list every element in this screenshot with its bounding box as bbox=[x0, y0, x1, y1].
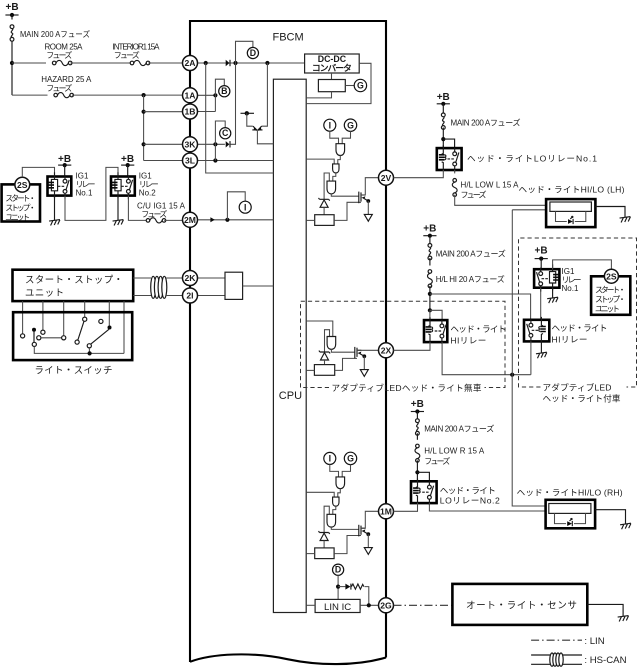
svg-text:I: I bbox=[329, 120, 331, 130]
diode lin bbox=[345, 584, 350, 590]
svg-text:フューズ: フューズ bbox=[141, 209, 167, 219]
node HI common bbox=[510, 373, 514, 377]
coil IG1 No.2 bbox=[112, 172, 121, 198]
open triangle A bbox=[364, 214, 372, 221]
+B node adp bbox=[535, 257, 548, 261]
open triangle B bbox=[360, 370, 368, 377]
wire HI common up to LH lamp bbox=[511, 210, 513, 375]
wire 2A to DC-DC bbox=[198, 62, 305, 64]
wire coil to 2V bbox=[394, 170, 444, 178]
svg-text:ライト・スイッチ: ライト・スイッチ bbox=[35, 365, 113, 376]
svg-text:ユニット: ユニット bbox=[5, 213, 30, 222]
wire transceiver to CPU bbox=[243, 285, 274, 287]
arm dot 5 bbox=[108, 326, 112, 330]
bubble C bbox=[220, 128, 231, 139]
wire zener to resistor C bbox=[323, 541, 325, 548]
contact pair mid bbox=[37, 336, 41, 340]
bubble I bbox=[239, 201, 251, 213]
gate1 C bbox=[336, 477, 345, 489]
hook to I bubble bbox=[227, 192, 245, 220]
diode D1 on 2A line bbox=[226, 60, 230, 66]
switch IG1 adp (mirrored) bbox=[537, 268, 548, 292]
svg-text:1M: 1M bbox=[380, 507, 392, 517]
wire switch line 1 bbox=[22, 301, 24, 334]
node 3K tap bbox=[142, 142, 146, 146]
wire HI common down to RH lamp bbox=[512, 375, 545, 506]
arm diagonal 4 bbox=[78, 321, 84, 340]
svg-text:FBCM: FBCM bbox=[273, 32, 304, 44]
wire coil to 2X bbox=[394, 342, 431, 350]
fuse HAZARD 25A bbox=[54, 93, 74, 98]
svg-text:アダプティブLEDヘッド・ライト無車: アダプティブLEDヘッド・ライト無車 bbox=[332, 382, 482, 393]
wire 2K in bbox=[198, 277, 226, 279]
wire to 2A bbox=[148, 62, 182, 64]
svg-text:MAIN 200 Aフューズ: MAIN 200 Aフューズ bbox=[20, 29, 90, 39]
node junction at +B rail bbox=[10, 61, 14, 65]
legend LIN line bbox=[531, 639, 582, 641]
start-stop unit box (adp) bbox=[591, 276, 630, 315]
LIN IC box bbox=[315, 599, 360, 612]
svg-text:LOリレーNo.2: LOリレーNo.2 bbox=[440, 496, 500, 506]
node hi branch2 bbox=[428, 308, 432, 312]
ground LH bbox=[620, 217, 632, 223]
wire link to junction bbox=[11, 42, 13, 96]
svg-text:フューズ: フューズ bbox=[46, 50, 72, 60]
ground IG1 No.1 bbox=[49, 220, 61, 226]
fusible link MAIN lo1 bbox=[441, 113, 445, 129]
wire IG1 switch to HI coil bbox=[540, 288, 542, 320]
svg-text:+B: +B bbox=[535, 246, 548, 257]
switch LO1 bbox=[448, 148, 459, 172]
+B node bar bbox=[5, 13, 18, 17]
lamp inner module RH bbox=[549, 504, 591, 514]
wire mid link bbox=[41, 337, 62, 339]
ground RH bbox=[620, 523, 632, 529]
legend HS-CAN twist bbox=[550, 653, 563, 666]
LIN bus dash-dot bbox=[394, 604, 453, 606]
svg-text:2G: 2G bbox=[380, 601, 392, 611]
contact line2 bbox=[41, 330, 45, 334]
coil IG1 adp bbox=[550, 264, 559, 290]
connector 2X bbox=[379, 343, 394, 358]
mosfet B bbox=[355, 347, 366, 359]
lamp led loop RH bbox=[555, 513, 586, 523]
wire to fusible link lo2 bbox=[416, 412, 418, 420]
coil IG1 No.1 bbox=[48, 172, 57, 198]
wire drain to 2X bbox=[357, 349, 378, 351]
connector 2V bbox=[379, 170, 394, 185]
svg-text:ユニット: ユニット bbox=[25, 287, 64, 298]
wire source to triangle B bbox=[363, 356, 365, 369]
svg-text:ヘッド・ライト: ヘッド・ライト bbox=[440, 486, 496, 496]
wire regulator out to CPU bbox=[306, 92, 331, 98]
svg-text:2K: 2K bbox=[185, 273, 197, 283]
wire 1A bbox=[198, 94, 216, 96]
resistor B bbox=[314, 365, 334, 376]
svg-text:2S: 2S bbox=[17, 180, 28, 190]
wire zener bracket B bbox=[325, 330, 330, 352]
svg-text:MAIN 200 Aフューズ: MAIN 200 Aフューズ bbox=[424, 424, 494, 434]
wire D to LIN IC bbox=[337, 575, 339, 599]
svg-text:2X: 2X bbox=[381, 346, 392, 356]
wire arm to bottom rail bbox=[34, 347, 124, 354]
svg-text:アダプティブLED: アダプティブLED bbox=[543, 382, 612, 393]
svg-text:2I: 2I bbox=[186, 291, 193, 301]
svg-text:I: I bbox=[329, 454, 331, 464]
+B node hi bbox=[423, 234, 436, 238]
svg-text:G: G bbox=[357, 81, 364, 91]
relay box LO No.1 bbox=[437, 148, 462, 170]
bubble I (drvC) bbox=[324, 452, 336, 464]
arm stem bbox=[33, 331, 35, 342]
svg-text:2A: 2A bbox=[185, 58, 196, 68]
svg-text:+B: +B bbox=[6, 2, 19, 13]
wire CPU to gate2 C bbox=[306, 492, 334, 497]
fusible link MAIN 200A bbox=[10, 25, 14, 41]
wire hazard to 1A bbox=[72, 94, 183, 96]
node hazard branch bbox=[142, 93, 146, 97]
auto light sensor box bbox=[452, 584, 587, 625]
wire link to node bbox=[442, 128, 444, 149]
svg-text:1B: 1B bbox=[185, 107, 196, 117]
connector 2S (left unit) bbox=[15, 177, 30, 192]
fusible link MAIN hi bbox=[428, 244, 432, 260]
switch IG1 No.2 bbox=[121, 175, 132, 199]
svg-text:1A: 1A bbox=[185, 91, 196, 101]
wire to fusible link bbox=[442, 104, 444, 115]
wire source to triangle C bbox=[367, 534, 369, 547]
wire +B down bbox=[11, 15, 13, 20]
zener B bbox=[319, 351, 330, 360]
svg-text:H/L LOW L 15 A: H/L LOW L 15 A bbox=[461, 181, 520, 190]
gate2 C bbox=[333, 497, 339, 506]
+B node bbox=[58, 163, 71, 167]
contact line3 bbox=[62, 336, 66, 340]
relay box IG1 No.1 bbox=[48, 177, 72, 196]
wire gateB to mosfet gate bbox=[331, 349, 354, 352]
wire switch line 5 bbox=[108, 301, 110, 326]
connector 2I bbox=[183, 288, 198, 303]
wire +B to switch bbox=[64, 165, 66, 176]
node 3K junction bbox=[213, 142, 217, 146]
contact 5 bottom bbox=[87, 344, 91, 348]
wire to 3L bbox=[144, 160, 183, 162]
relay box HI (std) bbox=[424, 320, 447, 342]
wire B net vertical + hook bbox=[215, 79, 224, 111]
wire 3L to CPU bbox=[198, 160, 274, 162]
svg-text:: LIN: : LIN bbox=[584, 636, 604, 647]
lone contact bbox=[99, 319, 103, 323]
wire node to switch pin bbox=[443, 139, 454, 148]
stems I G to gate1 bbox=[330, 131, 351, 144]
connector 1A bbox=[183, 88, 198, 103]
wire regulator to G bbox=[345, 85, 354, 87]
bubble D bbox=[247, 47, 258, 58]
wire switch to fuse bbox=[454, 170, 456, 173]
node lo2 bbox=[415, 470, 419, 474]
connector 1M bbox=[379, 504, 394, 519]
svg-text:G: G bbox=[347, 454, 354, 464]
wire fuse to LH lamp (LO) bbox=[455, 195, 546, 206]
wire resistor to mosfet source sense bbox=[334, 202, 361, 220]
fuse H/L LOW L 15A bbox=[452, 179, 457, 197]
gate B bbox=[327, 337, 336, 350]
wire CPU to resistor C bbox=[306, 553, 315, 555]
wire from 2A node down bbox=[262, 63, 268, 126]
node 2A branch bbox=[204, 61, 208, 65]
gate3 C bbox=[327, 514, 336, 527]
switch HI std bbox=[435, 320, 446, 344]
connector 2S adp bbox=[604, 269, 618, 283]
wire switch out to fuse bbox=[128, 196, 146, 221]
wire zener to resistor bbox=[323, 207, 325, 214]
wire 2I in bbox=[198, 295, 226, 297]
node lo1 bbox=[441, 137, 445, 141]
svg-text:コンバータ: コンバータ bbox=[312, 62, 352, 73]
zener C bbox=[319, 531, 330, 540]
wire +B to IG1 switch bbox=[540, 259, 542, 270]
svg-text:フューズ: フューズ bbox=[114, 50, 140, 60]
fuse H/L HI 20A bbox=[428, 270, 433, 288]
wire HI feed to LH lamp bbox=[512, 209, 546, 211]
start-stop unit box 2 bbox=[13, 270, 134, 301]
legend HS-CAN lines bbox=[531, 655, 582, 664]
svg-text:2S: 2S bbox=[606, 271, 617, 281]
wire LIN IC to 2G bbox=[360, 604, 378, 606]
gate1 A bbox=[336, 144, 345, 156]
ground IG1 adp bbox=[547, 297, 559, 303]
svg-text:ヘッド・ライト付車: ヘッド・ライト付車 bbox=[543, 393, 621, 404]
wire CPU to LIN IC bbox=[306, 604, 315, 606]
svg-text:ヘッド・ライト: ヘッド・ライト bbox=[450, 324, 506, 334]
wire HI switch down to common bbox=[530, 341, 532, 374]
wire to CPU bbox=[257, 131, 273, 144]
wire zener to resistor B bbox=[324, 360, 326, 365]
node rail junction bbox=[88, 351, 92, 355]
svg-text:ヘッド・ライトLOリレーNo.1: ヘッド・ライトLOリレーNo.1 bbox=[467, 154, 597, 164]
wire switch to RH lamp bbox=[429, 503, 545, 511]
coil HI std bbox=[426, 317, 433, 343]
wire switch out to relay No.2 coil bbox=[65, 167, 118, 220]
wire CPU to resistor bbox=[306, 219, 315, 221]
coil LO2 bbox=[413, 479, 420, 505]
svg-text:: HS-CAN: : HS-CAN bbox=[584, 655, 626, 666]
wire to 1B bbox=[144, 111, 183, 113]
bubble B bbox=[219, 86, 230, 97]
node 3L junction bbox=[213, 158, 217, 162]
stems I G to gate1 C bbox=[330, 464, 351, 477]
+B node lo1 bbox=[437, 102, 450, 106]
relay box IG1 adp bbox=[534, 269, 559, 288]
wire to INTERIOR1 fuse bbox=[70, 62, 131, 64]
svg-text:+B: +B bbox=[437, 92, 450, 103]
svg-text:2V: 2V bbox=[381, 173, 392, 183]
wire to fusible link hi bbox=[429, 236, 431, 245]
svg-text:H/L HI 20 Aフューズ: H/L HI 20 Aフューズ bbox=[436, 274, 505, 284]
wire CPU to gate2 bbox=[306, 159, 334, 164]
wire CPU to gateB bbox=[306, 321, 333, 337]
arm lower contact bbox=[32, 342, 36, 346]
twisted pair symbol bbox=[151, 276, 167, 298]
contact line4 top bbox=[83, 317, 87, 321]
wire source to triangle bbox=[367, 201, 369, 214]
wire drain to 1M bbox=[361, 511, 378, 528]
wire DC-DC bottom to regulator bbox=[331, 73, 333, 80]
wire coil to ground bbox=[54, 196, 56, 221]
wire diode to 2A node bbox=[230, 63, 235, 144]
svg-text:ストップ・: ストップ・ bbox=[595, 295, 626, 304]
wire switch line 2 bbox=[42, 301, 44, 330]
arm diagonal 5 bbox=[91, 329, 109, 344]
DC-DC box bbox=[305, 54, 360, 73]
gate2 A bbox=[333, 164, 339, 173]
svg-text:No.2: No.2 bbox=[139, 189, 156, 198]
svg-text:3K: 3K bbox=[185, 140, 197, 150]
wire gate2 out C bbox=[333, 506, 336, 514]
+B node lo2 bbox=[411, 409, 424, 413]
LED RH bbox=[566, 521, 574, 527]
wire switch line 3 bbox=[63, 301, 65, 335]
contact line1 bbox=[21, 334, 25, 338]
lamp led loop LH bbox=[556, 211, 586, 221]
wire link to fuse hi bbox=[429, 258, 431, 266]
wire contact5 to rail bbox=[88, 348, 90, 354]
node lin out bbox=[367, 603, 371, 607]
bubble G (drvC) bbox=[344, 452, 356, 464]
resistor A bbox=[315, 215, 334, 226]
lamp inner module LH bbox=[550, 202, 592, 211]
svg-text:フューズ: フューズ bbox=[424, 456, 450, 466]
wire switch to common bbox=[442, 342, 531, 375]
wire node to relay pins bbox=[430, 310, 442, 320]
coil HI adp bbox=[539, 317, 546, 343]
wire coil to ground adp bbox=[552, 288, 554, 298]
svg-text:G: G bbox=[347, 120, 354, 130]
svg-text:ヘッド・ライトHI/LO (RH): ヘッド・ライトHI/LO (RH) bbox=[517, 487, 623, 497]
bubble I (drvA) bbox=[324, 119, 336, 131]
wire 1B bbox=[198, 111, 216, 113]
wire to 3K bbox=[144, 143, 183, 145]
+B node bbox=[121, 163, 134, 167]
svg-text:HIリレー: HIリレー bbox=[552, 335, 588, 345]
svg-text:D: D bbox=[335, 565, 341, 575]
headlamp box LH bbox=[546, 199, 595, 227]
connector 2K bbox=[183, 271, 198, 286]
wire 3K-3L link + C hook bbox=[215, 121, 225, 161]
svg-text:ヘッド・ライトHI/LO (LH): ヘッド・ライトHI/LO (LH) bbox=[519, 184, 625, 194]
bus bar with node bbox=[241, 112, 255, 114]
fuse ROOM 25A bbox=[52, 60, 72, 65]
svg-text:ヘッド・ライト: ヘッド・ライト bbox=[552, 323, 608, 333]
FBCM box border bbox=[190, 21, 386, 662]
fuse INTERIOR1 15A bbox=[130, 60, 150, 65]
zener A bbox=[319, 198, 330, 207]
svg-text:C: C bbox=[222, 128, 229, 138]
relay box LO No.2 bbox=[411, 481, 437, 503]
wire HAZARD feed bbox=[12, 94, 48, 96]
wire bar down bbox=[247, 113, 253, 126]
connector 2G bbox=[379, 598, 394, 613]
wire 2S to IG1 relay No.1 coil bbox=[22, 167, 54, 177]
bubble D (lin) bbox=[333, 564, 344, 575]
connector 2A bbox=[183, 56, 198, 71]
fuse C/U IG1 15A bbox=[146, 218, 166, 223]
svg-text:MAIN 200 Aフューズ: MAIN 200 Aフューズ bbox=[436, 249, 506, 259]
svg-text:オート・ライト・センサ: オート・ライト・センサ bbox=[466, 600, 577, 611]
wire branch down to 1B 3K 3L bbox=[143, 95, 145, 160]
wire resistor B to source sense bbox=[335, 358, 357, 370]
relay box HI adp bbox=[524, 320, 549, 342]
wire +B to switch bbox=[127, 165, 129, 176]
wire fuse to 2M bbox=[164, 219, 182, 221]
bubble G (dcdc) bbox=[354, 79, 366, 91]
svg-text:ストップ・: ストップ・ bbox=[5, 204, 36, 213]
connector 2M bbox=[183, 212, 198, 227]
wire DC-DC right loop to CPU bbox=[306, 63, 371, 103]
hook to D bubble bbox=[236, 41, 253, 63]
wire pair to connectors bbox=[166, 278, 183, 296]
wire gate3 to mosfet gate C bbox=[331, 527, 359, 529]
light switch box bbox=[13, 312, 132, 360]
switch arm left: dot contact bbox=[32, 328, 36, 332]
wire zener bracket C bbox=[324, 506, 329, 532]
svg-text:+B: +B bbox=[411, 399, 424, 410]
wire branch to diode bbox=[338, 586, 345, 588]
svg-text:I: I bbox=[244, 202, 246, 212]
ground HI adp bbox=[536, 352, 548, 358]
wire 3K bbox=[198, 143, 225, 145]
diode D2 on 3K line bbox=[226, 141, 230, 147]
wire CPU to resistor B bbox=[306, 369, 314, 371]
wire gate3 to mosfet gate bbox=[331, 194, 359, 196]
svg-text:LIN IC: LIN IC bbox=[324, 602, 351, 613]
switch HI adp (mirrored) bbox=[527, 319, 538, 343]
wire sensor to ground bbox=[587, 604, 623, 616]
fuse H/L LOW R 15A bbox=[415, 444, 420, 462]
svg-text:CPU: CPU bbox=[279, 390, 302, 402]
arrow on 2M wire bbox=[210, 217, 214, 222]
coil LO1 bbox=[439, 145, 446, 171]
node DC-DC tap bbox=[265, 61, 269, 65]
wire node to switch pin lo2 bbox=[417, 472, 429, 481]
start-stop unit box bbox=[2, 184, 40, 221]
connector 3K bbox=[183, 137, 198, 152]
node hi branch1 bbox=[428, 292, 432, 296]
wire 2M to CPU bbox=[198, 219, 274, 221]
CPU box bbox=[273, 79, 306, 612]
wire HI coil to ground bbox=[540, 341, 542, 353]
svg-text:スタート・: スタート・ bbox=[5, 194, 36, 203]
FBCM wavy bottom edge bbox=[190, 654, 386, 664]
svg-text:フューズ: フューズ bbox=[461, 190, 487, 200]
svg-text:H/L LOW R 15 A: H/L LOW R 15 A bbox=[424, 447, 485, 456]
bubble G (drvA) bbox=[344, 119, 356, 131]
mosfet A bbox=[359, 192, 370, 204]
wire RH to ground bbox=[595, 510, 625, 524]
node 1A junction bbox=[213, 93, 217, 97]
svg-text:+B: +B bbox=[423, 224, 436, 235]
svg-text:2M: 2M bbox=[184, 215, 196, 225]
mosfet C bbox=[359, 525, 370, 537]
relay box IG1 No.2 bbox=[111, 177, 135, 196]
node 2M branch bbox=[225, 218, 229, 222]
svg-text:D: D bbox=[250, 48, 256, 58]
svg-text:3L: 3L bbox=[185, 156, 195, 166]
switch IG1 No.1 bbox=[58, 175, 69, 199]
node 1B tap bbox=[142, 110, 146, 114]
svg-text:MAIN 200 Aフューズ: MAIN 200 Aフューズ bbox=[451, 118, 521, 128]
wire gate1 out C bbox=[338, 489, 341, 497]
